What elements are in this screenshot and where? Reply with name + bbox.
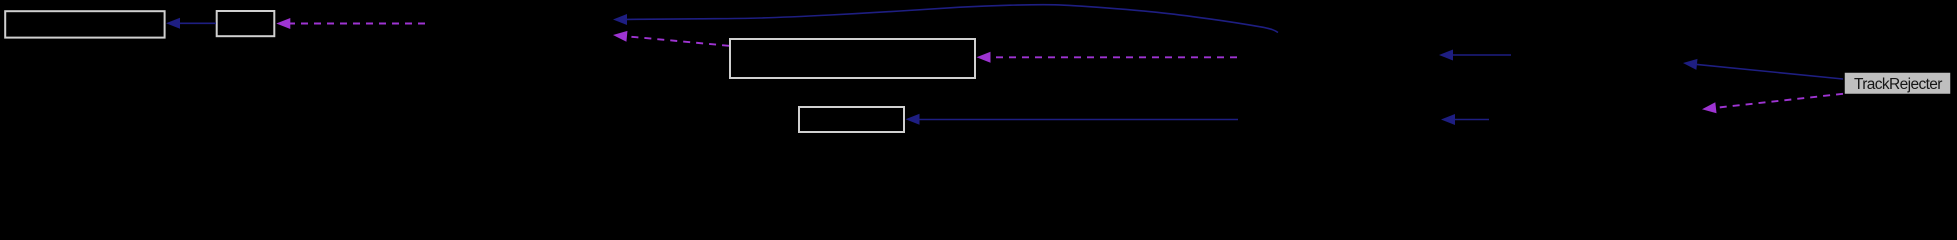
dashed edge D4: from TrackRejecter bottom-left -> lower left <box>1701 94 1843 115</box>
edge E2: long curved solid arrow (right node -> mid-left invisible node) <box>627 5 1278 33</box>
edge E3: solid arrow -> box D <box>906 114 1239 125</box>
edge E6: solid arrow from TrackRejecter to left <box>1682 58 1843 79</box>
node box D (lower middle) <box>799 107 904 132</box>
dashed edge D2: from box C left edge -> invisible node <box>612 30 729 46</box>
edge E1: solid arrow B -> A <box>166 18 216 29</box>
node box C (middle, two-line) <box>730 39 975 78</box>
dashed edge D3: -> box C right edge <box>977 52 1238 63</box>
node box A (top-left) <box>5 11 164 37</box>
node TrackRejecter (main node, gray fill) <box>1844 72 1951 95</box>
dashed edge D1: -> box B <box>276 18 425 29</box>
edge E4: short solid arrow (upper right of center) <box>1439 50 1511 61</box>
edge E5: short solid arrow (lower right of center) <box>1441 114 1489 125</box>
svg-text:TrackRejecter: TrackRejecter <box>1854 76 1942 93</box>
arrowhead of E2 <box>613 14 627 25</box>
node box B <box>217 11 275 36</box>
